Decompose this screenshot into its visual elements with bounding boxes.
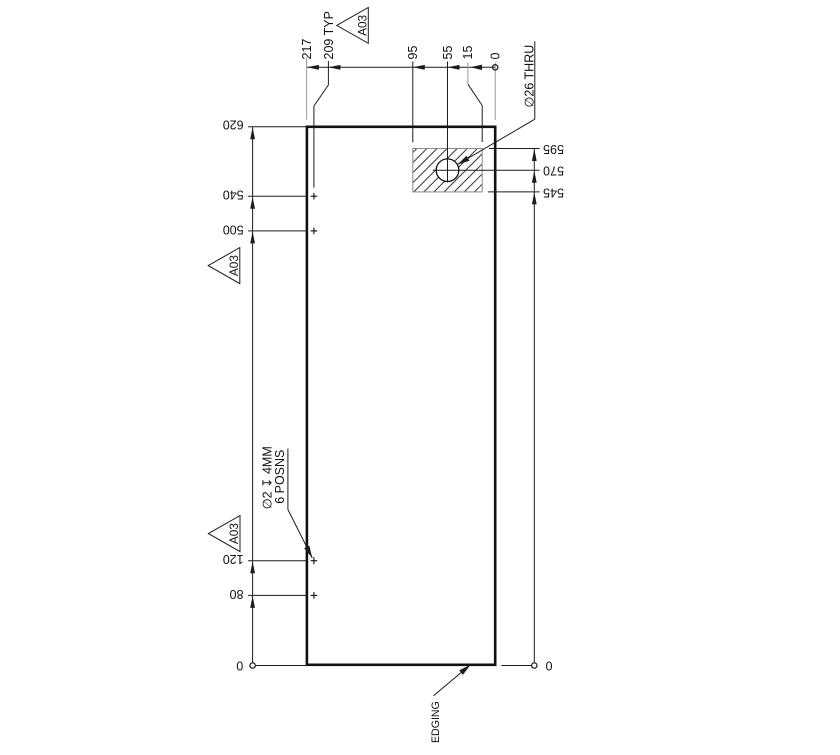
leader landing line O2 <box>287 449 289 510</box>
dim 120 extension line <box>248 560 307 562</box>
leader arrow EDGING <box>459 665 470 675</box>
revision triangle A03 top text <box>355 14 369 35</box>
svg-text:540: 540 <box>223 188 244 202</box>
dim 55 arrow <box>448 65 460 70</box>
label EDGING <box>430 701 442 743</box>
label 595 <box>543 142 564 156</box>
dim 595 arrow <box>532 149 537 161</box>
revision triangle A03 top <box>337 8 369 44</box>
hatched cutout border <box>413 149 482 192</box>
dim 500 extension line <box>248 230 307 232</box>
svg-text:80: 80 <box>230 587 244 601</box>
leader arrow O2 <box>304 546 312 559</box>
label 95 <box>406 46 420 60</box>
dim 545 arrow <box>532 192 537 204</box>
label 55 <box>441 46 455 60</box>
revision triangle A03 left lower text <box>227 523 241 544</box>
dim 15 jog <box>468 84 482 105</box>
hole position cross at 209,500 <box>311 228 318 235</box>
svg-text:595: 595 <box>543 142 564 156</box>
hole position cross at 209,80 <box>311 592 318 599</box>
dim 595 extension line <box>489 148 540 150</box>
label 0 right <box>545 659 552 673</box>
label 80 <box>230 587 244 601</box>
label 570 <box>543 164 564 178</box>
dim 209 jog <box>314 85 329 106</box>
dim 620 extension line <box>248 126 307 128</box>
right datum 0 circle <box>532 663 537 668</box>
top dimension line <box>307 66 495 68</box>
leader line EDGING <box>434 665 471 696</box>
revision triangle A03 left lower <box>208 516 240 552</box>
svg-text:217: 217 <box>300 39 314 60</box>
svg-text:6 POSNS: 6 POSNS <box>273 450 287 504</box>
dim 95 arrow <box>413 65 425 70</box>
svg-text:545: 545 <box>543 185 564 199</box>
left datum 0 circle <box>250 663 255 668</box>
revision triangle A03 left upper text <box>227 255 241 276</box>
dim 80 arrow <box>250 596 255 608</box>
left datum 0 extension line <box>255 665 308 667</box>
svg-text:A03: A03 <box>355 14 369 35</box>
leader line O2 <box>288 510 312 559</box>
dim 570 extension line / hole centerline <box>433 169 540 171</box>
label 15 <box>461 46 475 60</box>
dim 120 arrow <box>250 561 255 573</box>
hole position cross at 209,540 <box>311 193 318 200</box>
label 0 left <box>236 659 243 673</box>
svg-text:55: 55 <box>441 46 455 60</box>
label 6 POSNS <box>273 450 287 504</box>
left dimension line <box>252 127 254 665</box>
top datum 0 circle <box>493 65 498 70</box>
svg-text:620: 620 <box>223 117 244 131</box>
hole O26 clear area <box>436 159 459 182</box>
hole position cross at 209,120 <box>311 557 318 564</box>
svg-text:∅26 THRU: ∅26 THRU <box>522 45 536 108</box>
svg-text:209 TYP: 209 TYP <box>322 11 336 59</box>
dim 545 extension line <box>488 191 540 193</box>
revision triangle A03 left upper <box>208 248 240 284</box>
svg-text:500: 500 <box>223 222 244 236</box>
dim 55 extension line / hole centerline <box>447 62 449 183</box>
dim 209 tick <box>327 61 329 85</box>
svg-text:A03: A03 <box>227 523 241 544</box>
label 120 <box>223 552 244 566</box>
hatched cutout region (hatching) <box>323 149 518 192</box>
dim 15 tick (gray) <box>467 63 469 85</box>
svg-text:0: 0 <box>236 659 243 673</box>
dim 217 extension line (gray) <box>306 58 308 120</box>
label 540 <box>223 188 244 202</box>
dim 540 extension line <box>248 195 307 197</box>
label O2 depth 4MM <box>260 446 274 509</box>
svg-text:120: 120 <box>223 552 244 566</box>
dim 15 extension line <box>481 106 483 143</box>
dim 570 arrow <box>532 171 537 183</box>
leader line O26 THRU <box>457 41 535 164</box>
svg-text:15: 15 <box>461 46 475 60</box>
dim 209 extension line <box>313 106 315 188</box>
dim 95 extension line <box>412 62 414 143</box>
top datum 0 extension line (gray) <box>494 63 496 120</box>
svg-text:A03: A03 <box>227 255 241 276</box>
right datum 0 extension line <box>501 665 531 667</box>
dim 15 arrow <box>470 65 482 70</box>
dim 620 arrow <box>250 127 255 139</box>
svg-text:95: 95 <box>406 46 420 60</box>
panel outline 217 x 620 <box>307 127 495 665</box>
label 545 <box>543 185 564 199</box>
leader arrow O26 THRU <box>457 156 469 165</box>
svg-text:570: 570 <box>543 164 564 178</box>
dim 540 arrow <box>250 197 255 209</box>
label 500 <box>223 222 244 236</box>
dim 217 arrow <box>307 65 319 70</box>
dim 500 arrow <box>250 231 255 243</box>
svg-text:EDGING: EDGING <box>430 701 442 743</box>
dim 209 arrow <box>328 65 340 70</box>
label 217 <box>300 39 314 60</box>
label O26 THRU <box>522 45 536 108</box>
label 209 TYP <box>322 11 336 59</box>
dim 80 extension line <box>248 594 307 596</box>
label 620 <box>223 117 244 131</box>
right dimension line <box>533 149 535 666</box>
hole O26 outline <box>436 159 459 182</box>
label 0 top <box>489 53 503 60</box>
svg-text:0: 0 <box>545 659 552 673</box>
svg-text:0: 0 <box>489 53 503 60</box>
